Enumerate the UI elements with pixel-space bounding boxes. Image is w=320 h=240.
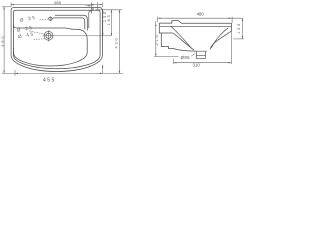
dim 555 top <box>11 3 102 8</box>
svg-text:185: 185 <box>107 13 111 25</box>
dim 430 <box>119 10 121 74</box>
side view rim inner line <box>160 25 231 27</box>
right dim stack extension line <box>96 9 123 11</box>
dim 460 left <box>2 7 11 74</box>
tap hole circle <box>49 16 52 21</box>
svg-text:480: 480 <box>197 12 205 17</box>
svg-text:430: 430 <box>115 36 119 48</box>
svg-text:135: 135 <box>237 22 241 34</box>
dim 130 <box>102 10 104 36</box>
deck step upper line <box>55 15 87 30</box>
dim 85 <box>86 2 98 13</box>
dim 185 <box>111 10 113 36</box>
plan view inner rim outline <box>13 10 100 69</box>
side view outer profile <box>159 21 231 59</box>
side view: front rim slab and rim underside <box>159 23 194 50</box>
svg-text:85: 85 <box>91 2 95 10</box>
plan view outer outline <box>11 8 102 72</box>
side view: body front edge and stepped bottom <box>161 33 195 51</box>
svg-text:555: 555 <box>54 0 62 5</box>
dim 215 <box>154 21 179 57</box>
svg-text:Ø85: Ø85 <box>181 55 191 60</box>
side view: top profile with tap boss hump and wall edge <box>160 21 231 50</box>
bowl inner wall left <box>171 26 192 48</box>
label D35 <box>19 15 48 23</box>
svg-text:215: 215 <box>155 33 159 45</box>
dim 135 <box>233 18 244 39</box>
svg-text:460: 460 <box>1 35 5 47</box>
svg-text:310: 310 <box>192 63 200 68</box>
dim 480 <box>158 17 243 23</box>
bowl back edge <box>13 25 87 53</box>
label D45 <box>18 31 47 39</box>
dim 310 <box>174 32 232 65</box>
deck step lower line <box>52 18 85 29</box>
drain centre extension line <box>56 35 111 37</box>
bowl front outline <box>13 48 87 66</box>
svg-text:455: 455 <box>43 78 56 84</box>
dim 455 bottom <box>15 65 103 76</box>
shared bottom extension line <box>2 72 123 74</box>
drain circles with crosshair <box>43 30 57 41</box>
drain fitting <box>194 51 207 58</box>
bowl inner wall right <box>211 28 228 48</box>
label D25 <box>17 25 46 35</box>
back ledge boundary line <box>89 10 91 28</box>
